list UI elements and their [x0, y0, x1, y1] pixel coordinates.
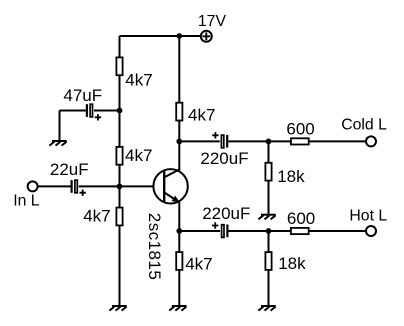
resistor 4k7 upper left	[116, 57, 122, 75]
node junction base	[117, 184, 123, 190]
wire top rail from left column to 17V supply	[120, 35, 201, 37]
node junction hot divider	[266, 228, 272, 234]
svg-text:4k7: 4k7	[125, 146, 152, 165]
capacitor 220uF cold negative plate	[226, 135, 228, 148]
wire 47uF ground branch vertical	[59, 111, 61, 141]
wire 600 resistor to Cold L terminal	[310, 140, 366, 142]
resistor 18k cold divider	[265, 163, 271, 181]
svg-text:17V: 17V	[198, 13, 227, 30]
resistor 600 hot output	[291, 228, 309, 234]
svg-text:600: 600	[287, 209, 315, 228]
svg-text:2sc1815: 2sc1815	[145, 213, 164, 280]
svg-text:220uF: 220uF	[200, 149, 248, 168]
capacitor 22uF positive plate box	[75, 180, 77, 193]
capacitor 47uF plus sign	[95, 114, 101, 120]
svg-text:4k7: 4k7	[188, 106, 215, 125]
transistor Q1 collector lead	[164, 169, 180, 177]
transistor Q1 emitter arrow	[172, 196, 179, 202]
wire 220uF cap to hot node	[228, 230, 290, 232]
wire collector node to 220uF cap	[179, 140, 220, 142]
svg-text:47uF: 47uF	[63, 86, 102, 105]
wire mid column collector upper	[178, 36, 180, 171]
wire 47uF cap to ground branch horizontal	[60, 110, 86, 112]
node junction 47uF left column	[117, 108, 123, 114]
node junction emitter	[176, 228, 182, 234]
svg-text:4k7: 4k7	[185, 255, 212, 274]
ground left column	[109, 306, 126, 311]
capacitor 22uF negative plate	[70, 180, 72, 193]
svg-text:Cold L: Cold L	[341, 117, 387, 134]
transistor Q1 2sc1815 body circle	[153, 169, 187, 203]
wire cold node to 18k resistor and ground	[268, 141, 270, 214]
node junction top rail	[176, 33, 182, 39]
resistor 4k7 collector load	[176, 103, 182, 121]
wire mid column emitter lower	[178, 202, 180, 306]
wire emitter node to 220uF cap	[179, 230, 220, 232]
capacitor 220uF hot plus sign	[212, 222, 218, 228]
resistor 18k hot divider	[265, 252, 271, 270]
wire In L terminal to 22uF cap	[38, 185, 71, 187]
svg-text:4k7: 4k7	[83, 207, 110, 226]
node junction collector	[176, 139, 182, 145]
svg-text:600: 600	[286, 120, 314, 139]
power supply 17V terminal circle-plus	[201, 31, 212, 42]
capacitor 220uF hot positive plate box	[222, 225, 224, 238]
wire hot node to 18k resistor and ground	[268, 231, 270, 306]
capacitor 220uF cold plus sign	[212, 132, 218, 138]
transistor Q1 emitter lead	[164, 192, 177, 200]
ground emitter column	[169, 306, 186, 311]
svg-text:Hot L: Hot L	[349, 207, 387, 224]
wire left column vertical	[119, 36, 121, 306]
ground cold divider	[258, 215, 275, 220]
svg-text:220uF: 220uF	[202, 204, 250, 223]
transistor Q1 base bar	[163, 171, 165, 202]
terminal Hot L	[366, 226, 376, 236]
resistor 600 cold output	[291, 138, 309, 144]
resistor 4k7 middle left	[116, 147, 122, 165]
wire 600 resistor to Hot L terminal	[310, 230, 366, 232]
capacitor 47uF positive plate box	[90, 104, 92, 117]
svg-text:4k7: 4k7	[125, 70, 152, 89]
svg-text:18k: 18k	[277, 167, 305, 186]
terminal In L	[28, 181, 38, 191]
resistor 4k7 lower left	[116, 208, 122, 226]
capacitor 220uF hot negative plate	[226, 225, 228, 238]
svg-text:22uF: 22uF	[50, 160, 89, 179]
capacitor 220uF cold positive plate box	[221, 135, 223, 148]
wire 47uF cap to left column	[94, 110, 120, 112]
terminal Cold L	[366, 136, 376, 146]
ground 47uF branch	[49, 141, 66, 146]
capacitor 22uF plus sign	[80, 190, 86, 196]
svg-text:18k: 18k	[278, 254, 306, 273]
wire 220uF cap to cold node	[228, 140, 290, 142]
capacitor 47uF negative plate	[86, 104, 88, 117]
node junction cold divider	[266, 139, 272, 145]
ground hot divider	[258, 306, 275, 311]
wire 22uF cap to base node	[79, 185, 164, 187]
resistor 4k7 emitter	[176, 252, 182, 270]
svg-text:In L: In L	[13, 193, 40, 210]
